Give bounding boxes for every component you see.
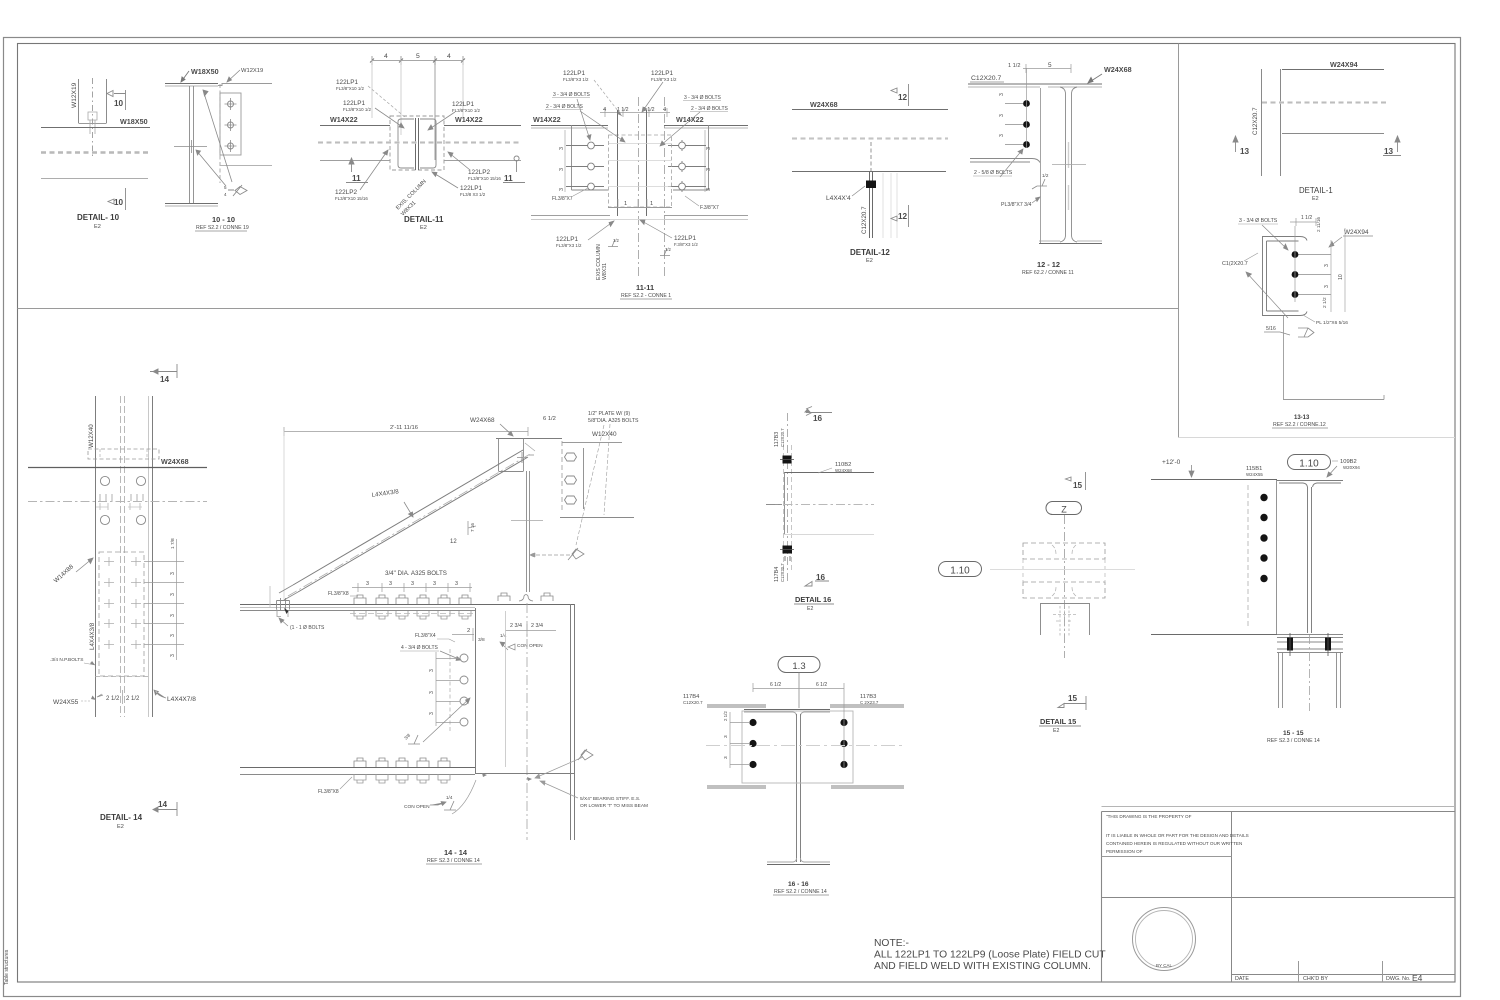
column cap top (496, 438, 562, 440)
bottom strip tick 1 (1298, 961, 1300, 982)
svg-text:CONTAINED HEREIN IS REGULATED: CONTAINED HEREIN IS REGULATED WITHOUT OU… (1106, 841, 1242, 846)
beam W14X22 left top flange (531, 125, 608, 127)
svg-text:CHK'D BY: CHK'D BY (1303, 976, 1328, 982)
svg-text:IT IS LIABLE IN WHOLE OR PART: IT IS LIABLE IN WHOLE OR PART FOR THE DE… (1106, 833, 1249, 838)
svg-text:CON OPEN: CON OPEN (517, 643, 543, 649)
beam dashes below (350, 613, 475, 615)
svg-text:FL3/8"X10 15/16: FL3/8"X10 15/16 (468, 176, 501, 181)
svg-text:FL3/8"X10 1/2: FL3/8"X10 1/2 (343, 107, 371, 112)
leader tl1 (368, 86, 406, 118)
title block inner vertical (1231, 812, 1233, 983)
beam web below (1283, 316, 1285, 399)
leader to left bolts (577, 99, 591, 140)
weld flag (1032, 179, 1047, 189)
beam W12X19 centerline (92, 78, 94, 158)
svg-text:12 - 12: 12 - 12 (1037, 260, 1060, 269)
dim vertical (435, 652, 437, 726)
svg-text:C12X20.7: C12X20.7 (1252, 107, 1259, 135)
arrow left (97, 694, 103, 697)
beam web with fillets (1060, 87, 1077, 242)
center mark right of brace (511, 520, 543, 522)
svg-text:E2: E2 (94, 224, 101, 230)
svg-text:F.3/8"X7: F.3/8"X7 (700, 205, 719, 211)
svg-text:W24X68: W24X68 (161, 457, 189, 466)
hidden web curve marks top (1052, 545, 1076, 554)
svg-text:E2: E2 (117, 824, 124, 830)
svg-text:12: 12 (898, 93, 908, 102)
svg-text:Table structures: Table structures (4, 949, 10, 985)
W12X19 bottom line (220, 165, 272, 167)
beam bottom flange (767, 864, 830, 866)
hash marks cluster (100, 494, 143, 501)
svg-text:FL3/8"X3 1/2: FL3/8"X3 1/2 (556, 243, 582, 248)
column chain centerline (526, 603, 528, 840)
beam 110B2 edge line (784, 472, 874, 474)
bearing plate lines (1277, 642, 1343, 653)
beam W24X94 top edge (1282, 69, 1384, 71)
column edge left vertical (95, 396, 97, 717)
existing channel bottom left (707, 785, 766, 789)
column chain centerline (1309, 635, 1311, 711)
svg-text:REF S2.2 / CONNE 14: REF S2.2 / CONNE 14 (774, 889, 827, 895)
svg-text:3 - 3/4 Ø BOLTS: 3 - 3/4 Ø BOLTS (684, 95, 722, 101)
beam W12X19 plan outline right (106, 79, 108, 123)
svg-text:+12'-0: +12'-0 (1162, 459, 1181, 466)
column flange right channel (420, 119, 436, 168)
bolt dim vertical (1026, 68, 1028, 148)
dim leader rows (144, 562, 184, 645)
svg-text:REF 62.2 / CONNE 11: REF 62.2 / CONNE 11 (1022, 270, 1074, 276)
dashed bottom tick line (95, 676, 148, 678)
W12X40 top stub (562, 442, 622, 444)
leader to weld symbol from top (203, 90, 232, 182)
W18X50 bottom flange (165, 203, 218, 205)
svg-text:FL3/8"X10 15/16: FL3/8"X10 15/16 (335, 196, 368, 201)
svg-text:3: 3 (429, 712, 435, 715)
existing chain line (792, 137, 948, 140)
lower beam edge line (41, 178, 148, 180)
splice clip tabs bottom (354, 610, 471, 619)
title block left cell divider (1102, 856, 1232, 858)
svg-text:OR LOWER 'T' TO MISS BEAM: OR LOWER 'T' TO MISS BEAM (580, 803, 648, 809)
existing chain line (1262, 101, 1386, 103)
hidden bolt dashes in column (1060, 606, 1069, 636)
divider line under top detail band (18, 308, 1179, 310)
beam W14X22 left top edge (320, 125, 390, 127)
beam W14X22 left bottom edge (320, 160, 390, 162)
svg-text:7 16: 7 16 (470, 523, 475, 532)
svg-text:C12X20.7: C12X20.7 (971, 75, 1001, 82)
leader to top bolt (1262, 225, 1288, 250)
leader dashed tl (594, 80, 622, 116)
svg-text:3: 3 (723, 756, 729, 759)
dim 1 1 (618, 199, 647, 207)
svg-text:E2: E2 (807, 606, 813, 612)
svg-text:122LP1: 122LP1 (556, 236, 578, 243)
small center marks (1053, 615, 1076, 622)
web middle faint marks (1068, 142, 1070, 210)
plate vertical for 4 bolts (475, 608, 477, 773)
svg-text:6 1/2: 6 1/2 (770, 682, 781, 688)
svg-text:122LP1: 122LP1 (452, 101, 474, 108)
divider vertical right of top band (1178, 44, 1180, 438)
dashed gauge line (1247, 485, 1249, 629)
svg-text:5/16: 5/16 (1266, 326, 1276, 332)
weld flag 1/4 top (500, 642, 508, 650)
beam W18X50 edge line (41, 127, 150, 129)
bottom middle light line (610, 219, 664, 221)
bolt leader rows left (730, 723, 750, 765)
upper beam lower line (240, 610, 475, 612)
svg-text:1/4: 1/4 (446, 795, 453, 800)
svg-text:13: 13 (1384, 147, 1394, 156)
svg-text:AND FIELD WELD WITH EXISTING C: AND FIELD WELD WITH EXISTING COLUMN. (874, 961, 1091, 972)
svg-text:2 1/2: 2 1/2 (1322, 297, 1328, 308)
leader tr arrow (428, 112, 455, 130)
leader 122LP2 left (360, 150, 388, 190)
beam W24X68 edge line (792, 109, 948, 111)
svg-text:3 - 3/4 Ø BOLTS: 3 - 3/4 Ø BOLTS (553, 92, 591, 98)
diagonal leader w/ weld (423, 698, 470, 742)
svg-text:3: 3 (429, 691, 435, 694)
channel C12X20.7 profile (1263, 236, 1308, 316)
svg-text:CON OPEN: CON OPEN (404, 804, 430, 810)
svg-text:3: 3 (706, 168, 712, 171)
bolt leaders (1005, 104, 1023, 145)
svg-text:122LP1: 122LP1 (651, 70, 673, 77)
section marker 12 top (891, 84, 909, 106)
channel+beam top flange (968, 83, 1102, 85)
bolt 1 (1292, 251, 1299, 258)
gusset bolt cross rows (104, 557, 141, 649)
centerline chain vertical (1064, 515, 1066, 658)
svg-text:3: 3 (999, 134, 1005, 137)
title block mid horizontal (1102, 897, 1456, 899)
weld diamond right (568, 548, 584, 560)
top dim line (600, 108, 670, 117)
gusset dashed rect (99, 552, 144, 676)
leader right bolts (660, 112, 700, 146)
svg-text:4: 4 (224, 192, 227, 197)
svg-text:1.3: 1.3 (792, 661, 805, 672)
svg-text:FL3/8"X3 1/2: FL3/8"X3 1/2 (651, 77, 677, 82)
column flange left double (1279, 653, 1283, 708)
center mark (1052, 164, 1086, 166)
svg-text:2'-11 11/16: 2'-11 11/16 (390, 425, 418, 431)
bubble Z cloud (1046, 502, 1082, 515)
svg-text:5/8"DIA. A325 BOLTS: 5/8"DIA. A325 BOLTS (588, 418, 639, 424)
svg-text:1 1/2: 1 1/2 (1008, 63, 1020, 69)
svg-text:DETAIL- 10: DETAIL- 10 (77, 213, 120, 222)
bolt B3 (225, 140, 237, 152)
lower beam bottom tabs (354, 774, 450, 783)
dim ticks slashes (370, 59, 465, 63)
svg-text:4: 4 (447, 53, 451, 60)
svg-text:DETAIL-12: DETAIL-12 (850, 248, 890, 257)
beam W14X22 right bottom edge (444, 160, 521, 162)
svg-text:BY CAL: BY CAL (1156, 963, 1172, 968)
leader from beam end (452, 780, 476, 814)
loose plate dashed outline (609, 135, 672, 207)
svg-text:1/2" PLATE W/ (9): 1/2" PLATE W/ (9) (588, 411, 630, 417)
hidden beam bottom flange dashed (1023, 582, 1105, 598)
svg-text:L4X4X'4: L4X4X'4 (826, 195, 851, 202)
title block upper edge line (1102, 806, 1456, 808)
lower beam top tabs (354, 758, 450, 767)
svg-text:6 1/2: 6 1/2 (543, 416, 556, 422)
svg-text:2 3/4: 2 3/4 (510, 623, 522, 629)
svg-text:DETAIL 15: DETAIL 15 (1040, 717, 1076, 726)
leader 122LP2 right (448, 152, 470, 170)
svg-text:4: 4 (384, 53, 388, 60)
clip plate on web (220, 93, 241, 155)
W12X40 column solid flange (583, 448, 585, 509)
svg-text:3/4" DIA. A325 BOLTS: 3/4" DIA. A325 BOLTS (385, 570, 447, 577)
bolt 1 (1023, 100, 1030, 107)
dim line (753, 683, 844, 692)
diagonal brace outer line (293, 450, 523, 585)
svg-text:11-11: 11-11 (636, 283, 654, 292)
svg-text:3: 3 (366, 581, 369, 587)
svg-text:C12X20.7: C12X20.7 (780, 428, 785, 447)
svg-text:1/2: 1/2 (613, 238, 619, 243)
svg-text:122LP1: 122LP1 (460, 185, 482, 192)
svg-text:10: 10 (1338, 274, 1344, 280)
svg-text:3: 3 (706, 147, 712, 150)
bolts left column (566, 142, 604, 190)
dim line top (372, 56, 463, 65)
svg-text:3: 3 (559, 147, 565, 150)
svg-text:F.3/8"X3 1/2: F.3/8"X3 1/2 (674, 242, 698, 247)
svg-text:NOTE:-: NOTE:- (874, 938, 909, 949)
bolt leader lines (1295, 255, 1331, 295)
beam top flange w fillets (1277, 481, 1343, 488)
svg-text:W24X55: W24X55 (1246, 472, 1263, 477)
bolts (1260, 494, 1267, 501)
svg-text:5: 5 (224, 185, 227, 190)
splice plate outline (742, 711, 853, 783)
bolt leader rows (436, 659, 460, 723)
bolt B2 (225, 119, 237, 131)
anchor bolt left (1287, 638, 1293, 651)
svg-text:12: 12 (898, 212, 908, 221)
leader from web center (196, 150, 226, 186)
svg-text:1.10: 1.10 (1299, 459, 1319, 470)
svg-text:W24X94: W24X94 (1344, 229, 1369, 236)
svg-text:3: 3 (455, 581, 458, 587)
section marker 16 top (806, 407, 832, 416)
stamp circle inner (1136, 911, 1193, 968)
title block labels (1235, 976, 1411, 982)
svg-text:PL 1/2"X6 5/16: PL 1/2"X6 5/16 (1316, 320, 1348, 326)
svg-text:W8X31: W8X31 (602, 263, 608, 280)
svg-text:FL3/8 X3 1/2: FL3/8 X3 1/2 (460, 192, 486, 197)
ghost lines of channel (883, 173, 897, 238)
column flange left channel (398, 119, 414, 168)
hidden web curve marks bottom (1052, 587, 1076, 596)
svg-text:5/X4" BEARING STIFF. E.S.: 5/X4" BEARING STIFF. E.S. (580, 796, 640, 802)
bolt 3 (1292, 291, 1299, 298)
svg-text:2 - 3/4 Ø BOLTS: 2 - 3/4 Ø BOLTS (691, 106, 729, 112)
svg-text:1.10: 1.10 (950, 566, 970, 577)
dim line top (1023, 64, 1071, 73)
svg-text:11: 11 (352, 174, 361, 183)
svg-text:3: 3 (170, 614, 176, 617)
label W18X50 leader (181, 71, 189, 82)
faint divider under top-right box (1179, 437, 1456, 439)
svg-text:.3/4 N.P.BOLTS: .3/4 N.P.BOLTS (50, 657, 83, 663)
W12X19 beam top beyond (218, 84, 272, 86)
svg-text:6 1/2: 6 1/2 (816, 682, 827, 688)
svg-text:10 - 10: 10 - 10 (212, 215, 235, 224)
svg-text:3: 3 (999, 93, 1005, 96)
section marker 10 bottom (108, 188, 126, 210)
hidden flange side dashes (1023, 559, 1105, 582)
svg-text:16 - 16: 16 - 16 (788, 881, 809, 888)
svg-text:W14X22: W14X22 (330, 115, 358, 124)
brace chain centerline (288, 454, 530, 596)
svg-text:15: 15 (1068, 694, 1078, 703)
weld triangle (1298, 328, 1314, 337)
svg-text:W20X94: W20X94 (1343, 465, 1360, 470)
column web pair center (416, 118, 419, 170)
section marker 11 right (503, 156, 525, 183)
clip marks at beam end (88, 112, 97, 134)
svg-text:1/2: 1/2 (665, 247, 671, 252)
column C12X20.7 verticals (1262, 69, 1281, 176)
leader from bubble (798, 673, 800, 709)
svg-text:FL3/8"X4: FL3/8"X4 (415, 633, 436, 639)
svg-text:W18X50: W18X50 (191, 67, 219, 76)
center mark on web (174, 140, 207, 153)
left light vertical (269, 586, 271, 607)
clip angle black bottom (783, 546, 793, 554)
lower beam mid line (240, 774, 475, 776)
plate edge solid right (646, 110, 648, 216)
svg-text:W12X40: W12X40 (88, 424, 95, 448)
title block outline (1102, 812, 1456, 983)
leader bl arrow (588, 221, 614, 240)
section marker 15 top (1066, 472, 1086, 490)
svg-text:FL3/8"X10 1/2: FL3/8"X10 1/2 (452, 108, 480, 113)
beam left edge vertical (1276, 480, 1278, 635)
beam W12X19 plan bottom (79, 123, 107, 125)
left end hook below (277, 610, 288, 618)
svg-text:"THIS DRAWING IS THE PROPERTY: "THIS DRAWING IS THE PROPERTY OF (1106, 814, 1192, 819)
svg-text:C12X20.7: C12X20.7 (780, 563, 785, 582)
brace end cut marks (525, 443, 535, 451)
leaders from plate label down (576, 424, 610, 545)
title block disclaimer text (1106, 814, 1249, 854)
svg-text:E2: E2 (1053, 728, 1059, 734)
leader tick (818, 468, 832, 473)
column left flange line (505, 611, 507, 767)
svg-text:W18X50: W18X50 (120, 117, 148, 126)
beam flange bottom (1283, 395, 1384, 400)
svg-text:REF S2.3 / CONNE 14: REF S2.3 / CONNE 14 (427, 858, 480, 864)
svg-text:3/8: 3/8 (478, 637, 485, 643)
svg-text:FL3/8"X8: FL3/8"X8 (328, 591, 349, 597)
svg-text:W12X19: W12X19 (71, 82, 78, 108)
svg-text:5: 5 (416, 53, 420, 60)
left dim vertical (564, 130, 566, 192)
svg-text:3: 3 (706, 188, 712, 191)
bottom strip tick 2 (1382, 961, 1384, 982)
section marker 14 bottom (153, 802, 177, 816)
svg-text:14: 14 (158, 800, 168, 809)
svg-text:FL3/8"X3 1/2: FL3/8"X3 1/2 (563, 77, 589, 82)
svg-text:FL3/8"X8: FL3/8"X8 (318, 789, 339, 795)
faint plate rows (609, 144, 671, 187)
upper beam second line (240, 607, 475, 609)
beam W24X94 bottom edge (1282, 133, 1384, 135)
plate bottom (608, 207, 672, 209)
plate vertical (1040, 88, 1042, 243)
beam W24X68 edge line (28, 467, 207, 469)
svg-text:DETAIL- 14: DETAIL- 14 (100, 813, 143, 822)
svg-text:3: 3 (389, 581, 392, 587)
svg-text:15 - 15: 15 - 15 (1283, 730, 1304, 737)
section marker 13 left (1233, 136, 1238, 152)
left end bearing (277, 598, 290, 610)
label W12X19 leader (227, 70, 240, 82)
W18X50 top flange (165, 83, 218, 85)
svg-text:122LP1: 122LP1 (674, 235, 696, 242)
bolt vertical line (1294, 226, 1296, 302)
faint long centerline horizontal (990, 569, 1135, 571)
dashed leader to weld (530, 553, 574, 558)
svg-text:3: 3 (170, 634, 176, 637)
W18X50 web (190, 86, 194, 203)
column center dashed pair (121, 396, 125, 717)
column outline below (1041, 604, 1090, 636)
svg-text:16: 16 (816, 573, 826, 582)
beam web double (1308, 487, 1312, 633)
svg-text:REF S2.2 / CORNE.12: REF S2.2 / CORNE.12 (1273, 422, 1326, 428)
svg-text:3: 3 (723, 735, 729, 738)
svg-text:122LP1: 122LP1 (563, 70, 585, 77)
svg-text:2: 2 (467, 628, 470, 634)
right plate edge vertical (673, 125, 709, 190)
svg-text:C12X20.7: C12X20.7 (683, 700, 703, 705)
beam web (797, 714, 801, 862)
svg-text:(1 - 1 Ø BOLTS: (1 - 1 Ø BOLTS (290, 625, 325, 631)
leader tr (642, 82, 663, 112)
splice clip tabs top (354, 595, 471, 604)
svg-text:W14X22: W14X22 (676, 115, 704, 124)
bolts right column (668, 140, 706, 192)
stamp circle outer (1133, 908, 1196, 971)
svg-text:13: 13 (1240, 147, 1250, 156)
svg-text:L4X4X3/8: L4X4X3/8 (89, 622, 96, 650)
beam bottom flange right (664, 215, 748, 217)
existing chain centerline (766, 504, 874, 506)
section marker 12 bottom (891, 205, 909, 227)
svg-text:PERMISSION OF: PERMISSION OF (1106, 849, 1143, 854)
svg-text:12: 12 (450, 539, 457, 545)
bolt 2 (1023, 121, 1030, 128)
svg-text:L4X4X7/8: L4X4X7/8 (167, 696, 196, 703)
svg-text:W24X68: W24X68 (470, 417, 495, 424)
svg-text:C1(2X20.7: C1(2X20.7 (1222, 261, 1248, 267)
column cap box (499, 439, 524, 472)
dim line small top (1290, 218, 1316, 226)
svg-text:122LP2: 122LP2 (335, 189, 357, 196)
existing chain line (318, 141, 522, 144)
clip tabs on beam top at column (498, 593, 553, 601)
hex bolts on column (565, 453, 577, 504)
column centerline chain 1 (638, 97, 640, 276)
